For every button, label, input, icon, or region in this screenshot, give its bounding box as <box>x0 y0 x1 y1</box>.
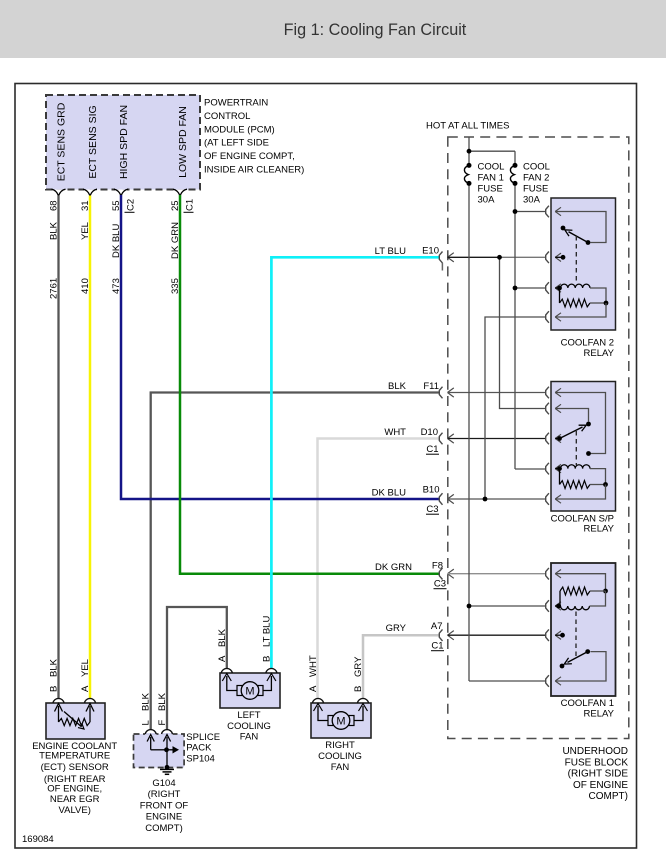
svg-text:FUSE BLOCK: FUSE BLOCK <box>565 757 629 768</box>
svg-text:30A: 30A <box>523 195 541 206</box>
svg-text:BLK: BLK <box>157 692 168 711</box>
svg-text:B: B <box>49 686 60 692</box>
svg-text:OF ENGINE,: OF ENGINE, <box>47 784 102 795</box>
svg-text:Fig 1: Cooling Fan Circuit: Fig 1: Cooling Fan Circuit <box>284 21 467 39</box>
svg-text:YEL: YEL <box>80 659 91 677</box>
svg-text:169084: 169084 <box>22 834 54 845</box>
svg-text:FRONT OF: FRONT OF <box>140 800 189 811</box>
svg-text:INSIDE AIR CLEANER): INSIDE AIR CLEANER) <box>204 165 304 176</box>
svg-text:COOL: COOL <box>478 162 505 173</box>
svg-text:COOLFAN 1: COOLFAN 1 <box>561 698 614 709</box>
svg-text:FUSE: FUSE <box>478 184 503 195</box>
svg-text:M: M <box>245 685 254 697</box>
svg-text:COMPT): COMPT) <box>145 823 182 834</box>
svg-text:FAN: FAN <box>240 732 259 743</box>
svg-text:FAN: FAN <box>331 762 350 773</box>
svg-text:COOLING: COOLING <box>227 721 271 732</box>
svg-text:DK GRN: DK GRN <box>375 562 412 573</box>
svg-text:ECT SENS SIG: ECT SENS SIG <box>87 105 99 178</box>
svg-text:B10: B10 <box>423 485 440 496</box>
svg-text:C1: C1 <box>431 641 443 652</box>
svg-text:G104: G104 <box>152 778 175 789</box>
svg-text:LOW SPD FAN: LOW SPD FAN <box>177 106 189 178</box>
svg-text:BLK: BLK <box>388 381 407 392</box>
svg-text:F: F <box>157 720 168 726</box>
svg-text:L: L <box>141 720 152 725</box>
svg-text:C3: C3 <box>434 579 446 590</box>
svg-text:M: M <box>336 715 345 727</box>
svg-text:LT BLU: LT BLU <box>261 616 272 647</box>
svg-text:VALVE): VALVE) <box>59 805 91 816</box>
svg-text:A: A <box>308 685 319 692</box>
svg-text:C1: C1 <box>426 444 438 455</box>
svg-text:TEMPERATURE: TEMPERATURE <box>39 751 110 762</box>
svg-text:HOT AT ALL TIMES: HOT AT ALL TIMES <box>426 121 509 132</box>
svg-text:E10: E10 <box>422 246 439 257</box>
svg-text:DK BLU: DK BLU <box>372 487 406 498</box>
svg-text:ECT SENS GRD: ECT SENS GRD <box>56 102 68 181</box>
svg-text:(AT LEFT SIDE: (AT LEFT SIDE <box>204 138 269 149</box>
svg-text:OF ENGINE: OF ENGINE <box>573 780 628 791</box>
svg-text:BLK: BLK <box>49 658 60 677</box>
svg-text:RELAY: RELAY <box>584 709 615 720</box>
svg-text:COOLFAN S/P: COOLFAN S/P <box>551 513 614 524</box>
svg-text:(RIGHT SIDE: (RIGHT SIDE <box>568 769 629 780</box>
svg-text:C1: C1 <box>185 199 196 211</box>
svg-text:NEAR EGR: NEAR EGR <box>50 794 100 805</box>
svg-text:FUSE: FUSE <box>523 184 548 195</box>
svg-text:COMPT): COMPT) <box>589 791 628 802</box>
svg-text:UNDERHOOD: UNDERHOOD <box>562 746 628 757</box>
svg-text:POWERTRAIN: POWERTRAIN <box>204 98 268 109</box>
svg-text:A: A <box>80 685 91 692</box>
svg-text:F11: F11 <box>423 381 439 392</box>
svg-text:OF ENGINE COMPT,: OF ENGINE COMPT, <box>204 151 295 162</box>
svg-text:LEFT: LEFT <box>237 710 260 721</box>
svg-text:WHT: WHT <box>384 427 406 438</box>
svg-text:SPLICE: SPLICE <box>186 732 220 743</box>
svg-text:MODULE (PCM): MODULE (PCM) <box>204 124 275 135</box>
svg-text:SP104: SP104 <box>186 753 215 764</box>
svg-text:B: B <box>353 686 364 692</box>
svg-text:BLK: BLK <box>217 628 228 647</box>
svg-text:30A: 30A <box>478 195 496 206</box>
svg-text:RELAY: RELAY <box>584 524 615 535</box>
svg-text:HIGH SPD FAN: HIGH SPD FAN <box>118 105 130 179</box>
svg-text:(RIGHT: (RIGHT <box>148 789 181 800</box>
svg-text:LT BLU: LT BLU <box>375 246 406 257</box>
svg-text:B: B <box>261 656 272 662</box>
svg-text:C2: C2 <box>126 199 137 211</box>
svg-text:PACK: PACK <box>186 743 212 754</box>
svg-text:A: A <box>217 655 228 662</box>
svg-text:COOL: COOL <box>523 162 550 173</box>
svg-text:(ECT) SENSOR: (ECT) SENSOR <box>41 762 109 773</box>
svg-text:RELAY: RELAY <box>584 348 615 359</box>
svg-text:ENGINE: ENGINE <box>146 812 182 823</box>
svg-text:A7: A7 <box>431 621 443 632</box>
svg-text:WHT: WHT <box>308 655 319 677</box>
svg-text:GRY: GRY <box>353 656 364 677</box>
svg-text:RIGHT: RIGHT <box>325 740 355 751</box>
svg-text:CONTROL: CONTROL <box>204 111 250 122</box>
svg-text:GRY: GRY <box>386 623 407 634</box>
svg-text:D10: D10 <box>421 427 438 438</box>
svg-text:BLK: BLK <box>141 692 152 711</box>
svg-text:FAN 2: FAN 2 <box>523 173 549 184</box>
svg-text:COOLING: COOLING <box>318 751 362 762</box>
svg-text:C3: C3 <box>426 504 438 515</box>
svg-text:FAN 1: FAN 1 <box>478 173 504 184</box>
